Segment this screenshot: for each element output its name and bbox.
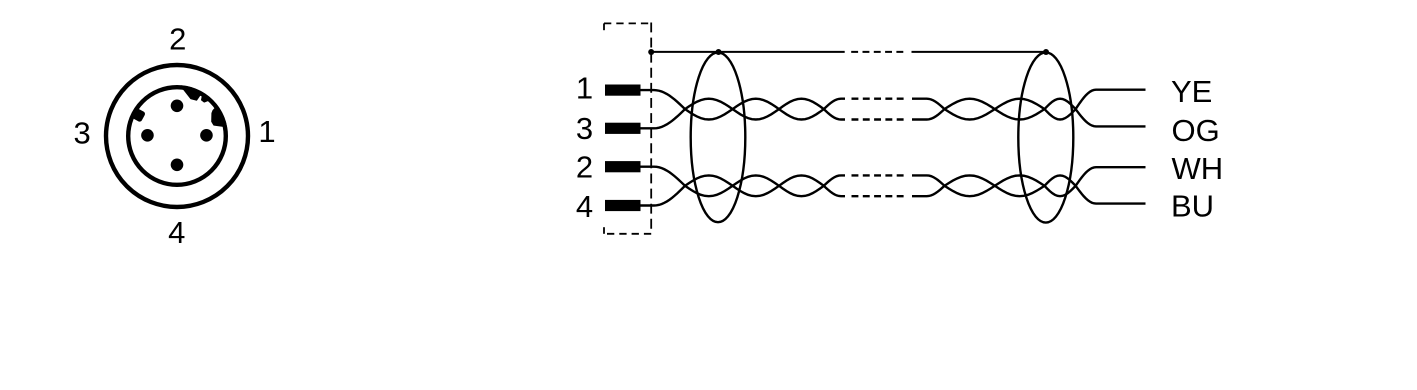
keying wedge top (1 o'clock): [181, 86, 202, 100]
pin 3 dot (left): [141, 129, 154, 142]
twisted pair 1 (pins 1/3): dashed continuation top: [845, 97, 912, 99]
pin terminal 1 (bar): [605, 85, 641, 96]
svg-text:YE: YE: [1171, 74, 1212, 109]
twisted pair 1 (pins 1/3): left wire a: [641, 90, 846, 119]
connector outer circle: [106, 65, 248, 207]
pin terminal 3 (bar): [605, 123, 641, 134]
svg-text:3: 3: [73, 115, 90, 150]
svg-text:BU: BU: [1171, 189, 1214, 224]
svg-text:4: 4: [576, 189, 593, 224]
connector housing corner stub bottom-left: [603, 227, 605, 234]
svg-text:3: 3: [576, 111, 593, 146]
svg-text:2: 2: [576, 150, 593, 185]
pin terminal 2 (bar): [605, 161, 641, 172]
svg-text:4: 4: [168, 215, 185, 250]
twisted pair 2 (pins 2/4): dashed continuation bottom: [845, 195, 912, 197]
svg-text:WH: WH: [1172, 151, 1224, 186]
twisted pair 1 (pins 1/3): dashed continuation bottom: [845, 118, 912, 120]
keying bump (1:30): [202, 93, 211, 101]
twisted pair 2 (pins 2/4): left wire a: [641, 167, 846, 197]
connector housing corner stub top-left: [603, 23, 605, 30]
twisted pair 2 (pins 2/4): left wire b: [641, 175, 846, 205]
pin 4 dot (bottom): [171, 159, 184, 172]
twisted pair 2 (pins 2/4): right wire b: [912, 175, 1146, 203]
shield wire (top, dashed middle): [651, 51, 1046, 53]
junction dot at left ellipse apex: [716, 49, 722, 55]
junction dot at right ellipse apex: [1043, 49, 1049, 55]
keying wedge right (2 o'clock): [212, 106, 226, 126]
cable shield ellipse right: [1018, 52, 1073, 222]
twisted pair 1 (pins 1/3): right wire b: [912, 99, 1146, 127]
junction dot at housing: [648, 49, 654, 55]
twisted pair 1 (pins 1/3): right wire a: [912, 90, 1146, 120]
svg-text:1: 1: [258, 114, 275, 149]
svg-text:2: 2: [169, 22, 186, 57]
connector housing (dashed, open left): top edge: [604, 22, 651, 24]
keying tab left (10 o'clock): [130, 107, 146, 122]
cable shield ellipse left: [691, 52, 746, 222]
twisted pair 2 (pins 2/4): right wire a: [912, 167, 1146, 196]
connector housing right edge: [650, 23, 652, 234]
svg-text:OG: OG: [1172, 113, 1220, 148]
twisted pair 1 (pins 1/3): left wire b: [641, 99, 846, 129]
pin terminal 4 (bar): [605, 200, 641, 211]
connector housing bottom edge: [604, 233, 651, 235]
pin 1 dot (right): [200, 129, 213, 142]
twisted pair 2 (pins 2/4): dashed continuation top: [845, 174, 912, 176]
connector inner circle: [128, 87, 226, 185]
pin 2 dot (top): [171, 100, 184, 113]
svg-text:1: 1: [576, 71, 593, 106]
